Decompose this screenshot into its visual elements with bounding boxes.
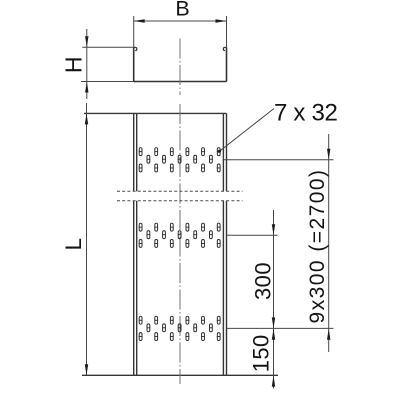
channel cross-section left side wall — [133, 47, 135, 81]
tray bottom edge with extensions both sides — [82, 374, 278, 376]
svg-text:150: 150 — [248, 334, 273, 372]
H dimension top extension line — [82, 46, 133, 48]
H dimension bottom extension line (channel bottom extended) — [81, 81, 134, 83]
slot group 2 (7x32 perforation field, centre y=235.3) — [139, 223, 221, 247]
left rail inner line lower part — [136, 201, 138, 376]
svg-text:L: L — [61, 238, 86, 251]
channel cross-section right side wall — [226, 47, 228, 81]
svg-text:B: B — [175, 0, 189, 21]
300 dimension bottom arrow — [272, 317, 275, 328]
L dimension bottom arrow — [85, 364, 88, 375]
slot group 3 (7x32 perforation field, centre y=328.4) — [139, 316, 221, 340]
B dimension line — [134, 20, 227, 22]
break line upper (dashed) — [117, 190, 243, 192]
9x300 dimension top arrow — [327, 149, 330, 160]
left rail outer line lower part — [133, 201, 135, 376]
right wall top hook (inward curl) — [223, 47, 226, 50]
L dimension line — [86, 103, 88, 375]
left rail outer line upper part — [133, 113, 135, 191]
150 dimension bottom arrow — [272, 376, 275, 387]
tray centre line — [179, 104, 181, 384]
svg-text:9x300 (=2700): 9x300 (=2700) — [306, 169, 329, 324]
extension line at first slot group centre — [223, 159, 334, 161]
H dimension bottom arrow — [85, 82, 88, 93]
H dimension line — [86, 29, 88, 99]
9x300 dimension line — [328, 134, 330, 352]
B dimension right arrow — [216, 19, 227, 22]
slot group 1 (7x32 perforation field, centre y=159.8) — [139, 148, 221, 172]
right rail inner line upper part — [222, 113, 224, 191]
svg-text:7 x 32: 7 x 32 — [274, 100, 338, 127]
right rail inner line lower part — [222, 201, 224, 376]
150 dimension top arrow — [272, 329, 275, 340]
left rail inner line upper part — [136, 113, 138, 191]
B dimension extension line left — [133, 16, 135, 47]
break line lower (dashed) — [117, 200, 243, 202]
300/150 dimension line — [273, 210, 275, 389]
svg-text:H: H — [61, 56, 87, 73]
leader line for 7x32 callout — [219, 109, 274, 152]
B dimension left arrow — [134, 19, 145, 22]
H dimension top arrow — [85, 36, 88, 47]
right rail outer line lower part — [226, 201, 228, 376]
left wall top hook (inward curl) — [134, 47, 137, 50]
300 dimension top arrow — [272, 224, 275, 235]
svg-text:300: 300 — [251, 262, 276, 300]
extension line at third slot group centre — [227, 327, 334, 329]
tray top edge with L extension — [84, 112, 227, 114]
L dimension top arrow — [85, 113, 88, 124]
leader dot on slot — [218, 150, 221, 153]
cross-section centre line — [179, 39, 181, 96]
B dimension extension line right — [226, 16, 228, 47]
9x300 dimension bottom arrow — [327, 329, 330, 340]
right rail outer line upper part — [226, 113, 228, 191]
extension line at second slot group centre — [227, 234, 278, 236]
channel cross-section bottom — [134, 81, 227, 83]
